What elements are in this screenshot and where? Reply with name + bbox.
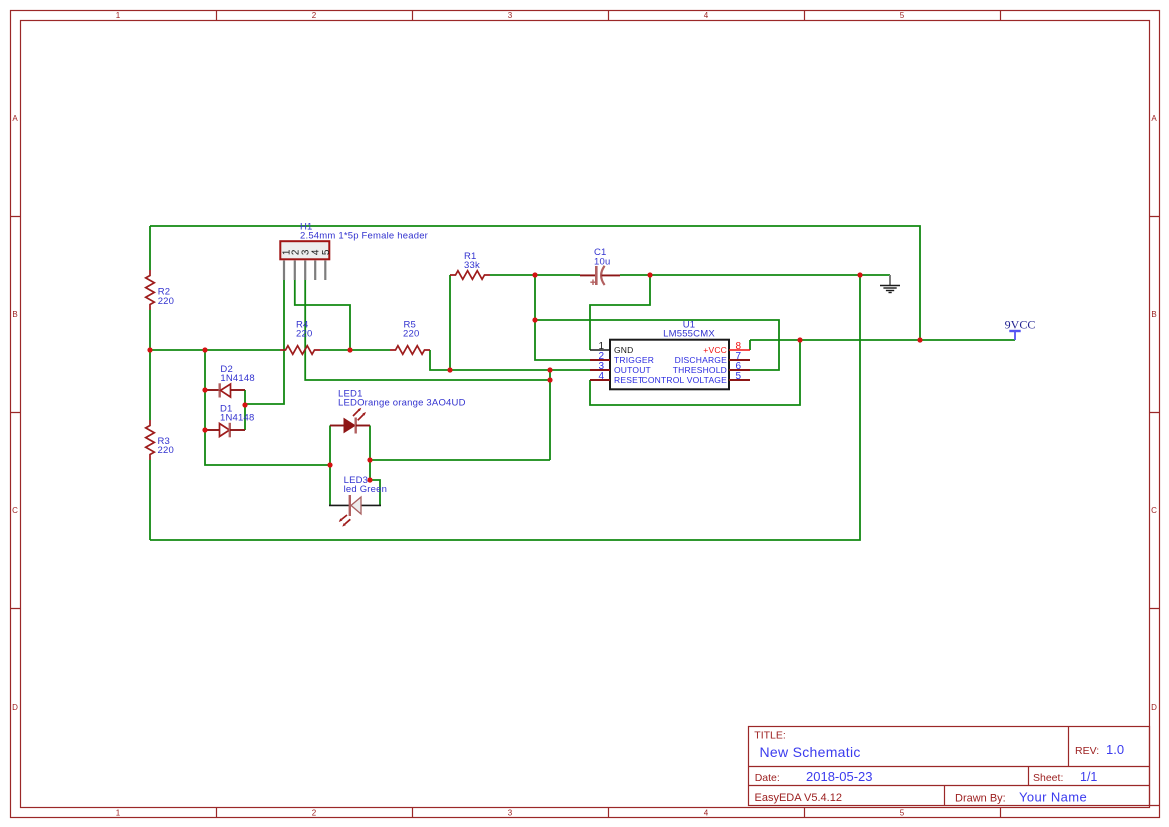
svg-text:1: 1 — [116, 11, 121, 20]
svg-text:Sheet:: Sheet: — [1033, 772, 1063, 784]
pin stub 5 — [324, 261, 326, 281]
junction (245,405) — [242, 402, 247, 407]
wire diode right vertical — [244, 390, 246, 430]
svg-text:THRESHOLD: THRESHOLD — [673, 365, 727, 375]
junction (920,340) — [917, 337, 922, 342]
svg-text:A: A — [1151, 114, 1157, 123]
junction (205,430) — [202, 427, 207, 432]
title block — [749, 727, 1160, 806]
diode D2 anode lead — [205, 389, 220, 391]
svg-text:220: 220 — [158, 445, 174, 456]
svg-text:5: 5 — [900, 11, 905, 20]
ground symbol — [880, 275, 900, 293]
svg-text:OUTOUT: OUTOUT — [614, 365, 651, 375]
pin 1 GND lead — [590, 349, 610, 351]
svg-text:REV:: REV: — [1075, 745, 1099, 757]
capacitor C1 plus sign — [590, 280, 595, 286]
svg-text:3: 3 — [508, 808, 513, 817]
junction (370,460) — [367, 457, 372, 462]
junction (205,390) — [202, 387, 207, 392]
diode D2 1N4148 (pointing left) — [205, 364, 255, 398]
svg-text:5: 5 — [321, 249, 332, 255]
junction (370,480) — [367, 477, 372, 482]
capacitor C1 positive plate — [595, 266, 598, 285]
wire header pin3 — [305, 280, 550, 380]
svg-text:5: 5 — [900, 808, 905, 817]
junction (550,370) — [547, 367, 552, 372]
wire R2 bottom to main node — [149, 310, 151, 350]
svg-text:New Schematic: New Schematic — [760, 744, 861, 760]
pin 7 DISCHARGE lead — [729, 359, 750, 361]
wire VCC top rail — [150, 226, 920, 340]
resistor R5 body — [390, 346, 430, 355]
diode D2 cathode bar — [218, 383, 220, 397]
junction (535,275) — [532, 272, 537, 277]
wire VCC rail to flag — [750, 339, 1015, 341]
JUNCTION DOTS — [147, 272, 922, 482]
resistor R4 body — [280, 346, 320, 355]
wire GND bottom rail — [150, 275, 860, 540]
svg-text:TITLE:: TITLE: — [754, 730, 786, 742]
wire R5 right to OUT line — [430, 350, 450, 370]
wire LED3 right jog — [370, 480, 380, 505]
junction (800,340) — [797, 337, 802, 342]
pin 3 OUTOUT lead — [590, 369, 610, 371]
LED LED1 orange (pointing right, filled) — [330, 388, 466, 433]
svg-text:1/1: 1/1 — [1080, 770, 1097, 784]
svg-text:Drawn By:: Drawn By: — [955, 792, 1006, 804]
diode D1 cathode lead — [230, 429, 245, 431]
junction (350,350) — [347, 347, 352, 352]
pin 6 THRESHOLD lead — [729, 369, 750, 371]
pin stub 2 — [294, 261, 296, 281]
LED3 lead line — [329, 504, 381, 506]
svg-text:C: C — [1151, 506, 1157, 515]
resistor R3 220 (vertical) — [146, 420, 174, 460]
svg-text:DISCHARGE: DISCHARGE — [675, 355, 727, 365]
LED3 cathode bar — [349, 495, 351, 516]
pin stub 4 — [314, 261, 316, 281]
wire D1 to LED junction — [205, 430, 330, 465]
LED1 cathode lead — [356, 425, 370, 427]
wire trigger vertical — [535, 275, 590, 360]
wire threshold loop — [535, 320, 779, 370]
svg-text:10u: 10u — [594, 257, 610, 268]
svg-text:RESET: RESET — [614, 375, 643, 385]
wire header pin2 — [295, 280, 350, 350]
wire OUT line to pin3 — [450, 369, 590, 371]
header H1 body — [280, 241, 329, 259]
wire LED3 top — [369, 460, 371, 480]
svg-text:4: 4 — [598, 371, 604, 382]
svg-text:9VCC: 9VCC — [1005, 317, 1036, 331]
resistor R1 33k (horizontal) — [450, 251, 490, 280]
LED3 triangle — [351, 497, 361, 514]
pin stub 1 — [283, 261, 285, 281]
LED1 emission arrows — [353, 410, 364, 420]
svg-text:C: C — [12, 506, 18, 515]
wire R2 top lead to rail — [149, 226, 151, 270]
svg-text:A: A — [12, 114, 18, 123]
LED LED3 green (pointing left, open) — [329, 475, 387, 527]
pin stub 3 — [304, 261, 306, 281]
svg-text:CONTROL VOLTAGE: CONTROL VOLTAGE — [642, 375, 728, 385]
wire LED3 left vertical — [329, 465, 331, 505]
diode D1 1N4148 (pointing right) — [205, 403, 254, 437]
svg-text:4: 4 — [704, 11, 709, 20]
wire pin4 RESET to VCC — [590, 340, 800, 405]
resistor R5 220 (horizontal) — [390, 319, 430, 354]
resistor R4 220 (horizontal) — [280, 319, 320, 354]
svg-text:Date:: Date: — [755, 772, 780, 784]
U1 body rectangle — [610, 340, 729, 390]
wire main node to R3 top — [149, 350, 151, 420]
svg-text:220: 220 — [296, 329, 312, 340]
capacitor C1 curved plate — [601, 266, 605, 285]
diode D1 anode lead — [205, 429, 220, 431]
junction (150,350) — [147, 347, 152, 352]
svg-text:1N4148: 1N4148 — [220, 413, 254, 424]
junction (860,275) — [857, 272, 862, 277]
wire C1 to ground — [620, 274, 890, 276]
resistor R2 body — [146, 270, 155, 310]
svg-text:1.0: 1.0 — [1106, 742, 1124, 757]
svg-text:220: 220 — [403, 329, 419, 340]
wire pin8 to VCC rail — [749, 340, 751, 350]
wire LED1 left vertical — [329, 426, 331, 466]
IC U1 LM555CMX 555 timer — [590, 319, 750, 389]
LED1 cathode bar — [355, 418, 357, 434]
resistor R3 body — [146, 420, 155, 460]
capacitor C1 right lead — [602, 274, 621, 276]
svg-text:led Green: led Green — [344, 484, 388, 495]
junction (330,465) — [327, 462, 332, 467]
wire LED1 right vertical — [369, 426, 371, 461]
capacitor C1 left lead — [580, 274, 595, 276]
connector H1 2.54mm 1*5p female header — [280, 221, 428, 280]
LED1 anode lead — [330, 425, 344, 427]
junction (450,370) — [447, 367, 452, 372]
svg-text:GND: GND — [614, 345, 634, 355]
svg-text:5: 5 — [736, 371, 742, 382]
pin 8 +VCC lead — [729, 349, 750, 351]
svg-text:3: 3 — [508, 11, 513, 20]
svg-text:LEDOrange orange 3AO4UD: LEDOrange orange 3AO4UD — [338, 398, 466, 409]
junction (535,320) — [532, 317, 537, 322]
diode D1 cathode bar — [229, 423, 231, 438]
resistor R1 body — [450, 271, 490, 280]
svg-text:4: 4 — [704, 808, 709, 817]
svg-text:2: 2 — [312, 808, 317, 817]
svg-text:D: D — [12, 703, 18, 712]
svg-text:Your Name: Your Name — [1019, 789, 1087, 804]
wire OUT down vertical — [549, 370, 551, 460]
svg-text:D: D — [1151, 703, 1157, 712]
diode D2 right lead — [231, 389, 246, 391]
svg-text:EasyEDA V5.4.12: EasyEDA V5.4.12 — [755, 792, 842, 804]
svg-text:LM555CMX: LM555CMX — [663, 329, 715, 340]
diode D2 triangle — [221, 384, 231, 397]
svg-text:1: 1 — [116, 808, 121, 817]
svg-text:220: 220 — [158, 296, 174, 307]
svg-text:1N4148: 1N4148 — [220, 373, 254, 384]
pin 4 RESET lead — [590, 379, 610, 381]
wire main node line left — [150, 349, 280, 351]
wire R1 left vertical — [449, 275, 451, 370]
svg-text:2018-05-23: 2018-05-23 — [806, 769, 873, 784]
wire pin1 GND — [590, 275, 650, 350]
LED3 emission arrows — [341, 515, 350, 524]
junction (550,380) — [547, 377, 552, 382]
svg-text:2: 2 — [312, 11, 317, 20]
svg-text:B: B — [12, 310, 17, 319]
svg-text:B: B — [1151, 310, 1156, 319]
svg-text:33k: 33k — [464, 260, 480, 271]
junction (205,350) — [202, 347, 207, 352]
wire R1 to C1 — [490, 274, 580, 276]
wire LED1 out to x550 — [370, 459, 550, 461]
wire header pin1 — [245, 280, 284, 404]
resistor R2 220 (vertical) — [146, 270, 174, 310]
svg-text:2.54mm 1*5p Female header: 2.54mm 1*5p Female header — [300, 231, 428, 242]
wire R3 bottom to GND rail — [149, 460, 151, 540]
pin 2 TRIGGER lead — [590, 359, 610, 361]
svg-text:TRIGGER: TRIGGER — [614, 355, 654, 365]
pin 5 CONTROL VOLTAGE lead — [729, 379, 750, 381]
wire main node line middle — [320, 349, 390, 351]
svg-text:+VCC: +VCC — [703, 345, 727, 355]
VCC power flag 9VCC — [1005, 317, 1036, 340]
junction (650,275) — [647, 272, 652, 277]
wire x205 vertical — [204, 350, 206, 430]
LED1 triangle — [344, 419, 355, 433]
capacitor C1 10u (polarized) — [580, 247, 620, 285]
diode D1 triangle — [220, 424, 230, 437]
